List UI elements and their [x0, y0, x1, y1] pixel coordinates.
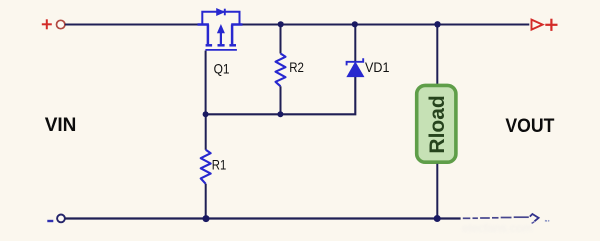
svg-text:R2: R2 — [289, 60, 304, 75]
resistor R1 — [201, 150, 211, 184]
wire mid rail (gate node to VD1 anode) — [206, 76, 356, 114]
zener diode VD1 — [347, 58, 364, 76]
terminal arrow (VOUT negative, faded) — [530, 214, 539, 221]
load Rload — [417, 85, 456, 162]
wire gate lead — [205, 51, 207, 115]
channel dash right — [229, 44, 236, 47]
terminal minus (VIN negative) — [47, 220, 53, 222]
wire bottom rail faded dashes — [463, 217, 529, 218]
wire Rload top — [436, 25, 438, 85]
svg-text:Rload: Rload — [426, 95, 449, 153]
wire top rail right — [241, 23, 529, 25]
svg-text:VOUT: VOUT — [505, 116, 554, 137]
wire Rload bottom — [436, 164, 438, 219]
resistor R2 — [276, 54, 286, 87]
wire bottom rail — [65, 217, 461, 219]
svg-text:R1: R1 — [212, 157, 227, 172]
channel dash middle — [218, 44, 225, 47]
terminal minus (VOUT negative, faded) — [545, 220, 549, 222]
substrate arrow — [220, 31, 222, 44]
wire top rail left — [65, 23, 199, 25]
terminal triangle (VOUT positive) — [532, 20, 543, 30]
anode triangle — [347, 62, 363, 76]
wire R2 bottom — [280, 86, 282, 114]
node Rload bottom — [434, 215, 441, 222]
terminal circle (VIN negative) — [57, 215, 65, 223]
terminal + (VOUT positive) — [545, 19, 557, 31]
body diode triangle — [217, 9, 224, 15]
node R1 bottom — [203, 215, 210, 222]
source pin stub — [198, 25, 209, 45]
node gate/R1 mid — [203, 111, 209, 117]
terminal + (VIN positive) — [42, 19, 52, 29]
transistor Q1 (P-MOSFET with body diode) — [198, 9, 243, 50]
node Rload top — [434, 21, 440, 27]
svg-text:VD1: VD1 — [365, 60, 390, 75]
terminal circle (VIN positive) — [57, 20, 65, 28]
node R2 bottom — [277, 111, 283, 117]
cathode bar with zener ticks — [347, 58, 364, 65]
node VD1 top — [352, 21, 358, 27]
drain pin stub — [231, 25, 242, 45]
svg-text:VIN: VIN — [45, 115, 77, 136]
gate bar — [205, 49, 237, 51]
wire VD1 cathode — [354, 25, 356, 62]
channel dash left — [206, 44, 213, 47]
wire R1 bottom — [205, 184, 207, 219]
svg-text:elecfans.com: elecfans.com — [462, 221, 533, 235]
body diode cathode bar — [224, 9, 226, 16]
node R2 top — [278, 21, 284, 27]
wire R1 top — [205, 114, 207, 150]
wire R2 top — [280, 25, 282, 54]
svg-text:Q1: Q1 — [214, 62, 230, 77]
body diode loop wire — [202, 12, 239, 25]
